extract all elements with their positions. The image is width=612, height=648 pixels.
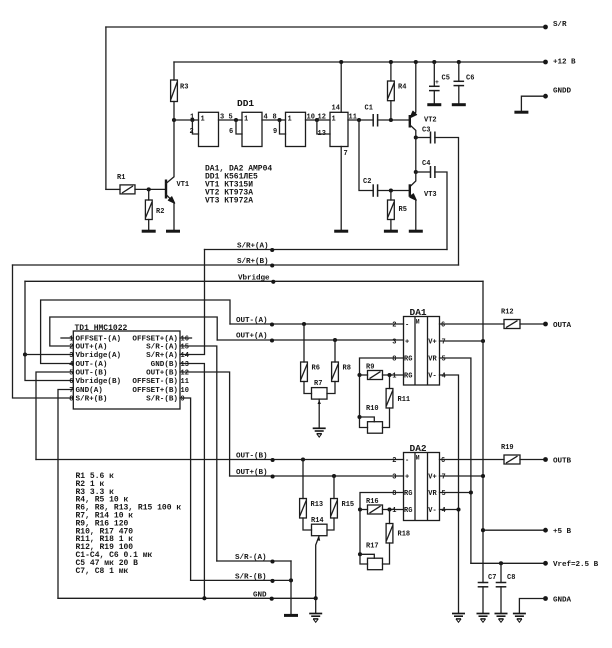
node C8 top: [499, 561, 503, 565]
chip pin13 to GND: [180, 364, 204, 599]
svg-text:R9: R9: [366, 364, 374, 372]
svg-text:VT2: VT2: [424, 117, 437, 125]
terminal +12 V: [543, 60, 548, 65]
svg-text:8: 8: [273, 114, 277, 122]
wire GNDA: [519, 599, 545, 614]
svg-text:2: 2: [69, 344, 73, 352]
svg-text:R5: R5: [399, 206, 407, 214]
svg-text:GND(B): GND(B): [151, 361, 178, 369]
svg-text:-: -: [405, 457, 409, 465]
svg-text:И: И: [416, 319, 420, 326]
ground bar DD1 pin7: [334, 230, 348, 232]
chip pin12 to OUT+(B): [180, 372, 230, 476]
node GND pin13 junction: [202, 596, 206, 600]
svg-text:S/R: S/R: [553, 21, 567, 29]
trimmer R10: [368, 422, 383, 434]
wire DA2 pin7 to V+ rail: [440, 475, 484, 477]
svg-text:R10: R10: [366, 405, 379, 413]
wire DD1 pin14 to +12: [340, 62, 342, 112]
svg-text:GNDD: GNDD: [553, 88, 572, 96]
svg-text:OFFSET-(B): OFFSET-(B): [132, 378, 178, 386]
svg-text:-: -: [405, 322, 409, 330]
svg-text:DA2: DA2: [410, 443, 427, 454]
svg-text:C6: C6: [466, 75, 474, 83]
svg-text:S/R-(B): S/R-(B): [235, 574, 267, 582]
node S/R- join: [289, 578, 293, 582]
svg-text:V-: V-: [428, 373, 436, 381]
node DA1 V+: [481, 339, 485, 343]
ground bar S/R-: [284, 614, 298, 616]
wire OUT+(B) line: [230, 475, 404, 477]
node R5 top / VT3 base: [389, 188, 393, 192]
chip pin1 stub open: [61, 337, 73, 339]
node GND R14 junction: [314, 596, 318, 600]
wire S/R+(A) to chip pin14: [180, 250, 205, 355]
resistor R2: [145, 200, 152, 220]
node VT2/VT3 collectors C3 branch: [414, 135, 418, 139]
svg-text:7: 7: [69, 387, 73, 395]
wire R2 top: [148, 189, 150, 200]
wire OUT-(B) line: [36, 459, 404, 461]
node R16 left: [358, 507, 362, 511]
svg-text:13: 13: [181, 361, 189, 369]
wire DA2 pin5 VR: [440, 492, 471, 494]
resistor R11: [389, 375, 391, 389]
svg-text:12: 12: [181, 370, 189, 378]
svg-text:8: 8: [392, 356, 396, 364]
svg-text:OUT+(A): OUT+(A): [76, 344, 108, 352]
wire C2 right to VT3 base: [378, 190, 409, 192]
svg-text:8: 8: [392, 490, 396, 498]
svg-text:R19: R19: [501, 444, 514, 452]
svg-text:S/R+(B): S/R+(B): [237, 258, 269, 266]
svg-text:14: 14: [181, 352, 189, 360]
svg-text:11: 11: [181, 378, 189, 386]
svg-text:OUT-(B): OUT-(B): [236, 453, 268, 461]
capacitor C1: [372, 114, 374, 127]
svg-text:RG: RG: [404, 356, 412, 364]
svg-text:1: 1: [288, 116, 292, 124]
node R3 top corner wire: [173, 62, 175, 80]
resistor R19: [504, 455, 520, 464]
wire DA1 pin6 output: [440, 323, 505, 325]
svg-text:C4: C4: [422, 160, 430, 168]
node R4 bottom / VT2 base: [389, 118, 393, 122]
wire S/R top line: [106, 26, 546, 28]
wire C4 to S/R+(A): [435, 172, 447, 250]
capacitor C8: [500, 563, 502, 582]
svg-text:VT1: VT1: [177, 181, 190, 189]
transistor VT2: [409, 115, 411, 128]
chip left pin labels: [76, 336, 122, 404]
wire gate1 pin2 loop: [192, 120, 198, 134]
svg-text:GNDA: GNDA: [553, 597, 572, 605]
capacitor C5: [432, 60, 436, 64]
svg-text:R1: R1: [117, 174, 125, 182]
svg-text:R6: R6: [312, 365, 320, 373]
wire DA1 pin5 VR to rail: [440, 358, 471, 563]
svg-text:7: 7: [442, 474, 446, 482]
ground bar C5: [427, 104, 441, 106]
wire S/R+(A) line: [205, 249, 448, 251]
svg-text:R15: R15: [342, 501, 355, 509]
resistor R6: [303, 324, 305, 362]
gate DD1.3: [286, 112, 306, 146]
gate DD1.1: [199, 112, 219, 146]
svg-text:15: 15: [181, 344, 189, 352]
node DA2 VR: [469, 490, 473, 494]
wire gate1 out to gate2 in: [219, 119, 243, 121]
wire gate2 out to gate3 in: [262, 119, 286, 121]
resistor R16: [368, 505, 383, 514]
wire R10 wiper: [360, 417, 375, 422]
svg-text:3: 3: [69, 352, 73, 360]
wire R3 bottom: [173, 102, 175, 121]
svg-text:7: 7: [442, 339, 446, 347]
svg-text:OUT+(B): OUT+(B): [236, 469, 268, 477]
resistor R18: [389, 510, 391, 524]
wire gate4 pin13 loop: [317, 120, 330, 134]
node gate3 pin9 tap: [277, 118, 281, 122]
svg-text:9: 9: [181, 396, 185, 404]
node +5 on V+ rail: [481, 528, 485, 532]
svg-text:16: 16: [181, 336, 189, 344]
capacitor C4: [416, 171, 431, 173]
terminal GNDA: [543, 596, 548, 601]
svg-text:5: 5: [442, 490, 446, 498]
svg-text:OFFSET+(A): OFFSET+(A): [132, 336, 178, 344]
chip right pin labels: [132, 336, 178, 404]
svg-text:1: 1: [69, 336, 73, 344]
svg-text:Vbridge(A): Vbridge(A): [76, 352, 122, 360]
svg-text:OUT-(A): OUT-(A): [236, 317, 268, 325]
svg-text:RG: RG: [404, 507, 412, 515]
svg-text:10: 10: [181, 387, 189, 395]
resistor R12: [504, 320, 520, 329]
node C4 branch: [414, 170, 418, 174]
terminal GNDD: [543, 94, 548, 99]
node S/R-(B) label dot: [270, 579, 274, 583]
node gate4 output branch: [357, 118, 361, 122]
svg-text:C3: C3: [422, 127, 430, 135]
wire S/R+(B) to chip pin8: [13, 265, 74, 398]
svg-text:4: 4: [69, 361, 73, 369]
wire OUT+(A) line: [217, 339, 403, 341]
svg-text:DD1: DD1: [237, 98, 254, 109]
wire C3 to S/R+(B): [435, 138, 459, 266]
node R6 top: [302, 322, 306, 326]
node R4 on +12 rail: [389, 60, 393, 64]
svg-text:R3: R3: [180, 84, 188, 92]
svg-text:OUTB: OUTB: [553, 458, 572, 466]
svg-text:R8: R8: [343, 365, 351, 373]
node VT2 emitter on +12 rail: [414, 60, 418, 64]
wire GND earth stub: [315, 598, 317, 613]
op-amp DA1: [404, 317, 440, 386]
svg-text:C1: C1: [365, 105, 373, 113]
resistor R13: [302, 460, 304, 499]
svg-text:+: +: [405, 339, 409, 347]
svg-text:6: 6: [229, 128, 233, 136]
svg-text:OUT+(A): OUT+(A): [236, 333, 268, 341]
wire GND line: [58, 597, 316, 599]
earth ground C7: [477, 614, 490, 623]
svg-text:C8: C8: [507, 574, 515, 582]
chip pin16 stub open: [180, 337, 192, 339]
wire S/R+(B) line: [13, 264, 459, 266]
svg-text:12: 12: [318, 114, 326, 122]
resistor R5: [390, 191, 392, 201]
node R9 left: [357, 373, 361, 377]
node OUT+(A) label dot: [270, 338, 274, 342]
svg-text:VT3 КТ972А: VT3 КТ972А: [205, 196, 253, 205]
node R2 top: [147, 187, 151, 191]
resistor R15: [333, 476, 335, 499]
wire +5 line: [483, 529, 546, 531]
node R3/VT1 collector junction: [172, 118, 176, 122]
node pin14 on +12 rail: [339, 60, 343, 64]
resistor R1: [120, 185, 135, 194]
wire R14 wiper to GND: [316, 536, 320, 599]
svg-text:9: 9: [273, 128, 277, 136]
svg-text:+12 В: +12 В: [553, 59, 576, 67]
svg-text:S/R-(A): S/R-(A): [146, 344, 178, 352]
node R13 top: [301, 457, 305, 461]
svg-text:4: 4: [442, 507, 446, 515]
wire DA1 pin8 RG: [360, 358, 404, 428]
earth ground C8: [495, 614, 508, 623]
svg-text:R18: R18: [398, 531, 411, 539]
resistor R8: [334, 340, 336, 362]
trimmer R14: [312, 524, 328, 536]
svg-text:5: 5: [69, 370, 73, 378]
node S/R-(A) label dot: [270, 559, 274, 563]
terminal +5 V: [543, 528, 548, 533]
node Vbridge to chip pin3: [23, 352, 27, 356]
earth ground GND: [309, 614, 322, 623]
resistor R9: [368, 371, 383, 380]
capacitor C6: [457, 60, 461, 64]
wire chip pin5 to OUT-(B): [36, 372, 73, 460]
svg-text:1: 1: [244, 116, 248, 124]
node S/R+(B) label dot: [270, 263, 274, 267]
svg-text:13: 13: [318, 130, 326, 138]
wire R2 bottom: [148, 220, 150, 230]
wire Vbridge line: [25, 280, 483, 282]
svg-text:V-: V-: [428, 507, 436, 515]
node S/R+(A) label dot: [270, 248, 274, 252]
svg-text:V+: V+: [428, 339, 436, 347]
wire R1 left: [106, 188, 120, 190]
wire R4 top: [390, 62, 392, 81]
svg-text:VT3: VT3: [424, 191, 437, 199]
svg-text:RG: RG: [404, 373, 412, 381]
op-amp DA2: [404, 453, 440, 521]
svg-text:3: 3: [392, 474, 396, 482]
svg-text:R13: R13: [311, 501, 324, 509]
svg-text:RG: RG: [404, 490, 412, 498]
wire R17 wiper: [360, 554, 374, 558]
svg-text:+: +: [405, 474, 409, 482]
wire Vref line: [471, 562, 546, 564]
svg-text:Vbridge(B): Vbridge(B): [76, 378, 122, 386]
svg-text:S/R+(A): S/R+(A): [146, 352, 178, 360]
svg-text:S/R-(B): S/R-(B): [146, 396, 178, 404]
node OUT+(B) label dot: [271, 474, 275, 478]
resistor R3: [171, 80, 178, 102]
ground bar R2: [142, 230, 156, 232]
capacitor C2: [372, 184, 374, 197]
earth ground R7: [313, 428, 326, 437]
svg-text:2: 2: [392, 322, 396, 330]
svg-text:S/R+(A): S/R+(A): [237, 243, 269, 251]
svg-text:DA1: DA1: [410, 307, 427, 318]
wire +12 rail: [174, 61, 546, 63]
svg-text:14: 14: [332, 105, 340, 113]
wire gate4 out: [348, 119, 373, 121]
svg-text:1: 1: [392, 373, 396, 381]
chip left pin numbers: [69, 336, 73, 404]
svg-text:+: +: [435, 79, 439, 86]
chip pin9 to S/R-(B): [180, 398, 191, 580]
svg-text:OUT-(B): OUT-(B): [76, 370, 108, 378]
gate DD1.4: [330, 112, 348, 146]
terminal Vref: [543, 561, 548, 566]
svg-text:VR: VR: [428, 356, 437, 364]
ground bar GNDD: [514, 111, 528, 113]
wire R1 right to VT1 base: [135, 188, 165, 190]
svg-text:1: 1: [190, 114, 194, 122]
resistor R4: [388, 81, 395, 101]
wire Vbridge to chip pin6: [25, 281, 73, 380]
wire S/R-(A) line: [217, 560, 291, 562]
svg-text:C7, C8 1 мк: C7, C8 1 мк: [76, 567, 129, 576]
node R10 wiper: [357, 415, 361, 419]
ground bar R5: [384, 230, 398, 232]
wire DA1 pin4 V- to rail: [440, 375, 459, 613]
wire chip pin3 stub: [25, 354, 73, 356]
transistor VT3: [410, 172, 416, 187]
capacitor C7: [478, 582, 489, 584]
wire DD1 pin7 to ground: [340, 147, 342, 230]
svg-text:1: 1: [201, 116, 205, 124]
wire left loop vertical: [105, 27, 107, 189]
wire DA1 pin7 to V+ rail: [440, 340, 484, 342]
svg-text:V+: V+: [428, 474, 436, 482]
trimmer R17: [368, 558, 383, 570]
svg-text:1: 1: [332, 116, 336, 124]
earth ground GNDA: [513, 614, 526, 623]
svg-text:GND: GND: [253, 591, 267, 599]
node GND label dot: [270, 597, 274, 601]
svg-text:2: 2: [392, 457, 396, 465]
wire node to DD1 gate1 input: [174, 119, 199, 121]
svg-text:OUT+(B): OUT+(B): [146, 370, 178, 378]
svg-text:OUT-(A): OUT-(A): [76, 361, 108, 369]
svg-text:R14: R14: [311, 517, 324, 525]
wire gate2 pin6 loop: [236, 120, 242, 134]
transistor VT1: [165, 180, 167, 199]
ground bar VT1 emitter: [166, 230, 180, 232]
wire chip pin2 loop: [50, 317, 217, 346]
wire Vbridge down V+ rail: [482, 281, 484, 582]
chip TD1 HMC1022: [73, 331, 180, 409]
wire C1 right: [378, 119, 409, 121]
svg-text:Vbridge: Vbridge: [238, 274, 270, 282]
wire S/R-(B) line: [191, 579, 291, 581]
node OUT-(B) label dot: [271, 458, 275, 462]
svg-text:2: 2: [190, 128, 194, 136]
svg-text:6: 6: [69, 378, 73, 386]
svg-text:R7: R7: [314, 380, 322, 388]
wire collector tie: [415, 138, 417, 173]
svg-text:VR: VR: [428, 490, 437, 498]
node OUT-(A) label dot: [270, 322, 274, 326]
node Vbridge label dot: [271, 280, 275, 284]
node R8 top: [333, 338, 337, 342]
svg-text:4: 4: [442, 373, 446, 381]
svg-text:R2: R2: [156, 208, 164, 216]
svg-text:S/R-(A): S/R-(A): [235, 554, 267, 562]
svg-text:8: 8: [69, 396, 73, 404]
svg-text:S/R+(B): S/R+(B): [76, 396, 108, 404]
node gate2 pin6 tap: [234, 118, 238, 122]
node R9 right / R11 top / DA1 pin1: [387, 373, 391, 377]
svg-text:+5 В: +5 В: [553, 528, 572, 536]
chip right pin numbers: [181, 336, 189, 404]
chip pin15 to S/R-(A): [180, 346, 217, 561]
text parts list: [76, 472, 182, 576]
node gate1 pin2 tap: [190, 118, 194, 122]
trimmer R7: [312, 388, 328, 400]
svg-text:Vref=2.5 В: Vref=2.5 В: [553, 561, 599, 569]
node R15 top: [332, 474, 336, 478]
svg-text:6: 6: [441, 457, 445, 465]
svg-text:OFFSET-(A): OFFSET-(A): [76, 336, 122, 344]
svg-text:C2: C2: [363, 178, 371, 186]
node R16 right / R18 top / DA2 pin1: [387, 507, 391, 511]
gate DD1.2: [242, 112, 262, 146]
wire R4 bottom: [390, 101, 392, 120]
svg-text:TD1 HMC1022: TD1 HMC1022: [75, 324, 128, 333]
wire chip pin4 loop: [41, 300, 230, 364]
svg-text:5: 5: [229, 114, 233, 122]
svg-text:OFFSET+(B): OFFSET+(B): [132, 387, 178, 395]
wire S/R- join vertical: [290, 561, 292, 614]
wire DA2 pin6 output: [440, 459, 505, 461]
wire DA2 pin8 RG: [360, 493, 404, 565]
svg-text:R12: R12: [501, 309, 514, 317]
svg-text:OUTA: OUTA: [553, 322, 572, 330]
svg-text:5: 5: [442, 356, 446, 364]
node DA2 V+: [481, 474, 485, 478]
svg-text:C7: C7: [488, 574, 496, 582]
svg-text:3: 3: [392, 339, 396, 347]
wire DA2 pin4 V-: [440, 509, 459, 511]
svg-text:6: 6: [441, 322, 445, 330]
svg-text:C5: C5: [442, 75, 450, 83]
terminal OUTB: [543, 457, 548, 462]
wire gate3 out to gate4 in: [306, 119, 331, 121]
node gate4 pin13 tap: [315, 118, 319, 122]
wire gate3 pin9 loop: [280, 120, 286, 134]
earth ground V- rail: [452, 614, 465, 623]
wire gate4 node down to C2: [359, 120, 373, 191]
svg-text:R11: R11: [398, 396, 411, 404]
node DA2 V-: [456, 507, 460, 511]
capacitor C3: [416, 137, 431, 139]
ground bar VT3: [409, 230, 423, 232]
